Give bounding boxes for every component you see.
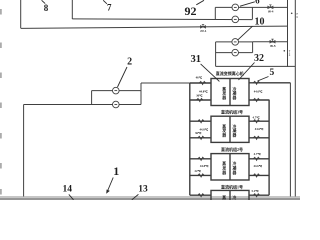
chiller U2 box	[211, 116, 249, 142]
arrowhead 1	[106, 190, 110, 194]
wire U1 right pipe to V3	[249, 82, 290, 84]
chiller U3 box	[211, 154, 249, 180]
wire U2 right stub 1	[249, 120, 269, 122]
wire feed line to unit1	[141, 82, 190, 84]
wire U2 left stub 1	[190, 120, 211, 122]
svg-text:32: 32	[254, 53, 264, 64]
wire user pump top pipe	[92, 90, 141, 92]
pump P3b	[113, 101, 120, 108]
svg-text:44.8℃: 44.8℃	[200, 164, 209, 168]
svg-text:W-4: W-4	[268, 10, 274, 14]
pump P3a	[113, 87, 120, 94]
leader 2	[118, 67, 128, 87]
svg-text:7: 7	[107, 3, 112, 13]
valve U3 left 2	[198, 174, 204, 177]
valve U3 right 1	[253, 157, 259, 160]
valve U3 right 2	[253, 174, 259, 177]
valve U2 left 2	[198, 136, 204, 139]
svg-text:36℃: 36℃	[196, 94, 203, 98]
wire channel vertical V2	[294, 0, 296, 197]
svg-text:8: 8	[44, 3, 49, 13]
svg-text:冷凝: 冷凝	[233, 195, 237, 200]
wire pump2 top pipe	[216, 41, 253, 43]
svg-text:22℃: 22℃	[195, 169, 202, 173]
svg-text:5.2℃: 5.2℃	[251, 189, 259, 193]
wire U4 right stub 1	[249, 194, 269, 196]
wire channel vertical V3	[289, 83, 291, 197]
valve U2 right 1	[253, 120, 259, 123]
svg-text:W-5: W-5	[270, 44, 276, 48]
valve main line 2V-1	[200, 24, 205, 28]
pump group1 manifold left	[214, 7, 216, 19]
valve U3 left 1	[198, 157, 204, 160]
wire U1 left stub 2	[190, 99, 211, 101]
wire left trunk	[189, 83, 191, 195]
left edge scan marks	[0, 9, 2, 195]
pump group2 manifold right	[252, 42, 254, 53]
wire user pump left vertical	[91, 91, 93, 105]
svg-text:10: 10	[255, 17, 265, 28]
leader 92	[196, 0, 204, 5]
leader 5	[258, 77, 269, 82]
leader 32	[239, 63, 255, 81]
inner box left edge	[71, 0, 73, 19]
svg-text:直流机组2号: 直流机组2号	[221, 146, 243, 152]
svg-text:44.6℃: 44.6℃	[255, 127, 264, 131]
pump P2a	[232, 39, 239, 46]
leader 7	[103, 0, 107, 4]
pump P2b	[232, 49, 239, 56]
chiller U1 box	[211, 79, 249, 106]
wire inner box bottom to pump P1b	[72, 18, 252, 21]
valve U1 right 1	[253, 81, 259, 84]
wire pump2 bottom pipe	[216, 52, 253, 54]
wire cross line y66	[216, 65, 296, 67]
svg-text:92: 92	[185, 4, 197, 18]
wire pump1 output	[252, 6, 288, 8]
outer box left edge	[20, 0, 22, 28]
leader 14	[69, 194, 74, 199]
svg-text:2: 2	[127, 57, 132, 68]
svg-text:直流机组1号: 直流机组1号	[221, 183, 243, 189]
wire U3 right stub 1	[249, 158, 269, 160]
svg-text:1: 1	[113, 164, 119, 178]
wire pump2 output	[253, 41, 288, 43]
svg-text:44.6℃: 44.6℃	[253, 164, 262, 168]
wire user pump bottom pipe long	[24, 104, 141, 106]
wire U3 left stub 1	[190, 158, 211, 160]
svg-text:36℃: 36℃	[195, 131, 202, 135]
svg-text:31: 31	[191, 54, 202, 65]
svg-text:13: 13	[138, 185, 148, 195]
sensor T2 tap	[284, 50, 286, 52]
valve U1 left 2	[197, 99, 203, 102]
pump group1 manifold right	[251, 7, 253, 19]
arrow 1	[107, 178, 113, 192]
wire user pump right vertical	[140, 83, 142, 105]
valve U2 right 2	[253, 136, 259, 139]
sensor T1 tap	[291, 13, 293, 15]
leader 8	[42, 0, 46, 3]
valve U1 left 1	[199, 82, 205, 85]
svg-text:44.8℃: 44.8℃	[199, 89, 208, 93]
valve U2 left 1	[198, 120, 204, 123]
wire left long vertical	[23, 105, 25, 197]
leader 6	[240, 2, 255, 6]
wire channel vertical V1	[287, 0, 289, 67]
valve U1 right 2	[253, 99, 259, 102]
wire U1 right stub 2	[249, 99, 269, 101]
svg-text:蒸发: 蒸发	[221, 195, 226, 200]
svg-text:4.7℃: 4.7℃	[252, 115, 260, 119]
svg-text:44.6℃: 44.6℃	[254, 89, 263, 93]
pump group2 manifold left	[215, 42, 217, 67]
wire pump1 top pipe	[215, 6, 252, 8]
valve W5	[270, 39, 275, 43]
wire U2 left stub 2	[190, 137, 211, 139]
bottom grey band	[0, 196, 300, 198]
wire U1 left stub 1	[190, 82, 211, 84]
svg-text:4.7℃: 4.7℃	[254, 152, 262, 156]
pump P1a	[232, 4, 239, 11]
valve U4 right 1	[253, 194, 259, 197]
svg-text:直流变频离心机: 直流变频离心机	[216, 70, 244, 76]
wire U2 right stub 2	[249, 137, 269, 139]
leader 13	[132, 194, 139, 199]
svg-text:5: 5	[270, 68, 275, 78]
valve W4	[268, 5, 273, 9]
svg-text:46℃: 46℃	[196, 76, 203, 80]
valve U4 left 1	[198, 194, 204, 197]
wire U3 right stub 2	[249, 174, 269, 176]
leader 31	[201, 64, 220, 82]
svg-text:直流机组3号: 直流机组3号	[221, 109, 243, 115]
wire U3 left stub 2	[190, 174, 211, 176]
chiller U4 box	[211, 190, 249, 200]
svg-text:14: 14	[63, 185, 73, 195]
wire long return line	[21, 26, 288, 28]
wire right trunk	[268, 100, 270, 196]
svg-text:6: 6	[255, 0, 260, 6]
pump P1b	[232, 16, 239, 23]
wire U4 left stub 1	[190, 194, 211, 196]
svg-text:2V-1: 2V-1	[200, 29, 207, 33]
leader 10	[238, 26, 253, 40]
